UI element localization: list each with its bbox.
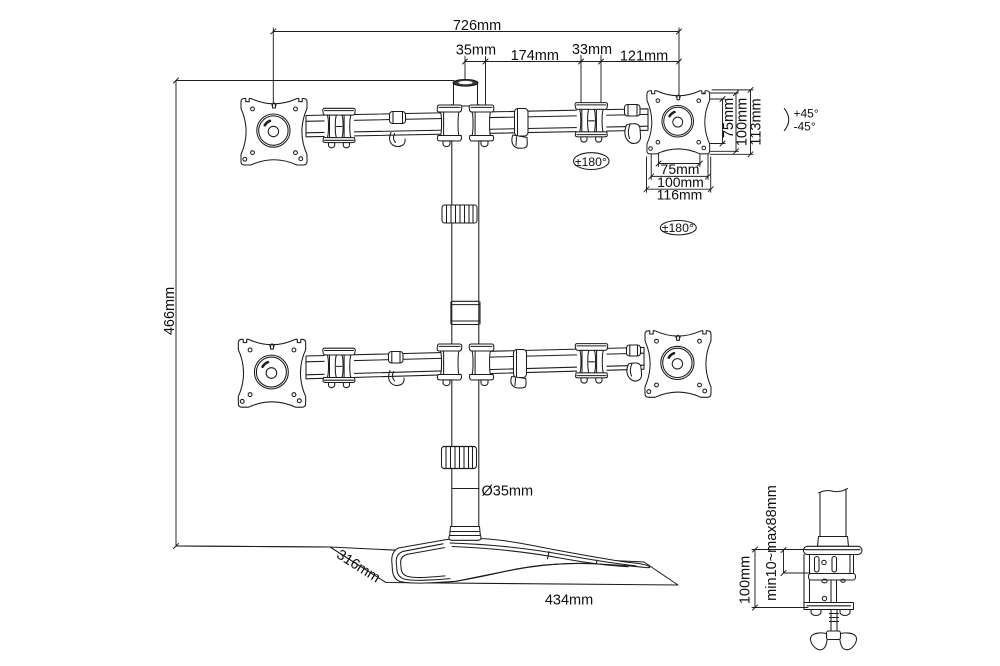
svg-text:Ø35mm: Ø35mm [482,483,534,499]
svg-text:726mm: 726mm [453,18,501,34]
cable clip lower right [627,345,642,381]
arm clamp upper left [323,108,355,148]
dimension 116mm horizontal below right plate [644,157,713,203]
svg-text:±180°: ±180° [575,155,607,169]
svg-text:466mm: 466mm [162,287,178,335]
rotation label ±180 upper arm [574,153,610,170]
svg-text:min10~max88mm: min10~max88mm [764,485,780,601]
svg-text:-45°: -45° [794,119,816,133]
dimension 174mm [486,48,582,64]
cable clip lower left [389,352,405,386]
cable clip upper right [625,105,641,144]
svg-text:434mm: 434mm [545,593,593,609]
dimension min10~max88mm desk thickness [764,485,810,601]
tube ring lower mid [511,350,527,389]
clamp detail middle plate [809,574,856,583]
vesa plate upper left [241,99,307,166]
clamp detail body upper bracket [810,555,854,574]
arm clamp lower left [323,348,355,388]
clamp detail screw shaft [830,610,839,634]
pole clamp lower center [437,344,494,386]
dimension 100mm horizontal below right plate [649,155,711,190]
adjustment knob lower [442,447,477,469]
dimension Ø35mm pole [452,483,533,499]
main pole [452,84,479,527]
dimension 726mm top width [271,18,682,103]
svg-text:174mm: 174mm [511,48,559,64]
svg-text:±180°: ±180° [662,221,694,235]
dimension 121mm [601,49,682,65]
dimension 33mm [572,42,612,103]
svg-text:100mm: 100mm [738,556,754,604]
svg-text:113mm: 113mm [749,98,765,145]
vesa plate lower right [645,331,711,398]
clamp detail top plate [804,546,863,554]
svg-text:121mm: 121mm [620,49,668,65]
dimension 113mm vertical right plate [710,87,765,156]
lower arm tube [306,347,644,378]
arm clamp upper right [575,103,607,143]
pole top collar [453,80,478,107]
pole bottom collar [449,527,481,541]
svg-text:316mm: 316mm [333,547,382,586]
vesa plate upper right [647,91,710,154]
upper arm tube [306,109,648,137]
pole mid sleeve joint [451,301,480,324]
dimension 75mm horizontal below right plate [656,146,702,177]
dimension 75mm vertical right plate [701,97,737,147]
svg-text:35mm: 35mm [456,42,496,58]
svg-text:33mm: 33mm [572,42,612,58]
clamp detail bottom arm [804,603,854,616]
clamp detail spine [804,555,810,607]
pole clamp upper center [437,105,494,147]
ground plane [176,546,678,585]
rotation label ±180 right plate [660,221,696,236]
adjustment knob upper [442,205,477,223]
clamp detail lower screw boss [822,580,836,603]
arm clamp lower right [575,344,607,384]
svg-text:+45°: +45° [794,106,819,120]
clamp detail pole [819,489,848,537]
svg-text:116mm: 116mm [657,187,703,203]
dimension 35mm pole top [456,42,496,105]
base foot [392,538,650,583]
dimension 100mm vertical right plate [703,91,751,154]
clamp detail wing nut [810,631,856,650]
tilt label +45/-45 [784,106,819,133]
tube ring upper mid [512,109,528,149]
dimension 466mm height [162,78,454,549]
cable clip upper left [390,112,406,147]
clamp detail collar [818,537,849,547]
vesa plate lower left [238,339,305,407]
dimension 100mm clamp height [738,547,809,610]
